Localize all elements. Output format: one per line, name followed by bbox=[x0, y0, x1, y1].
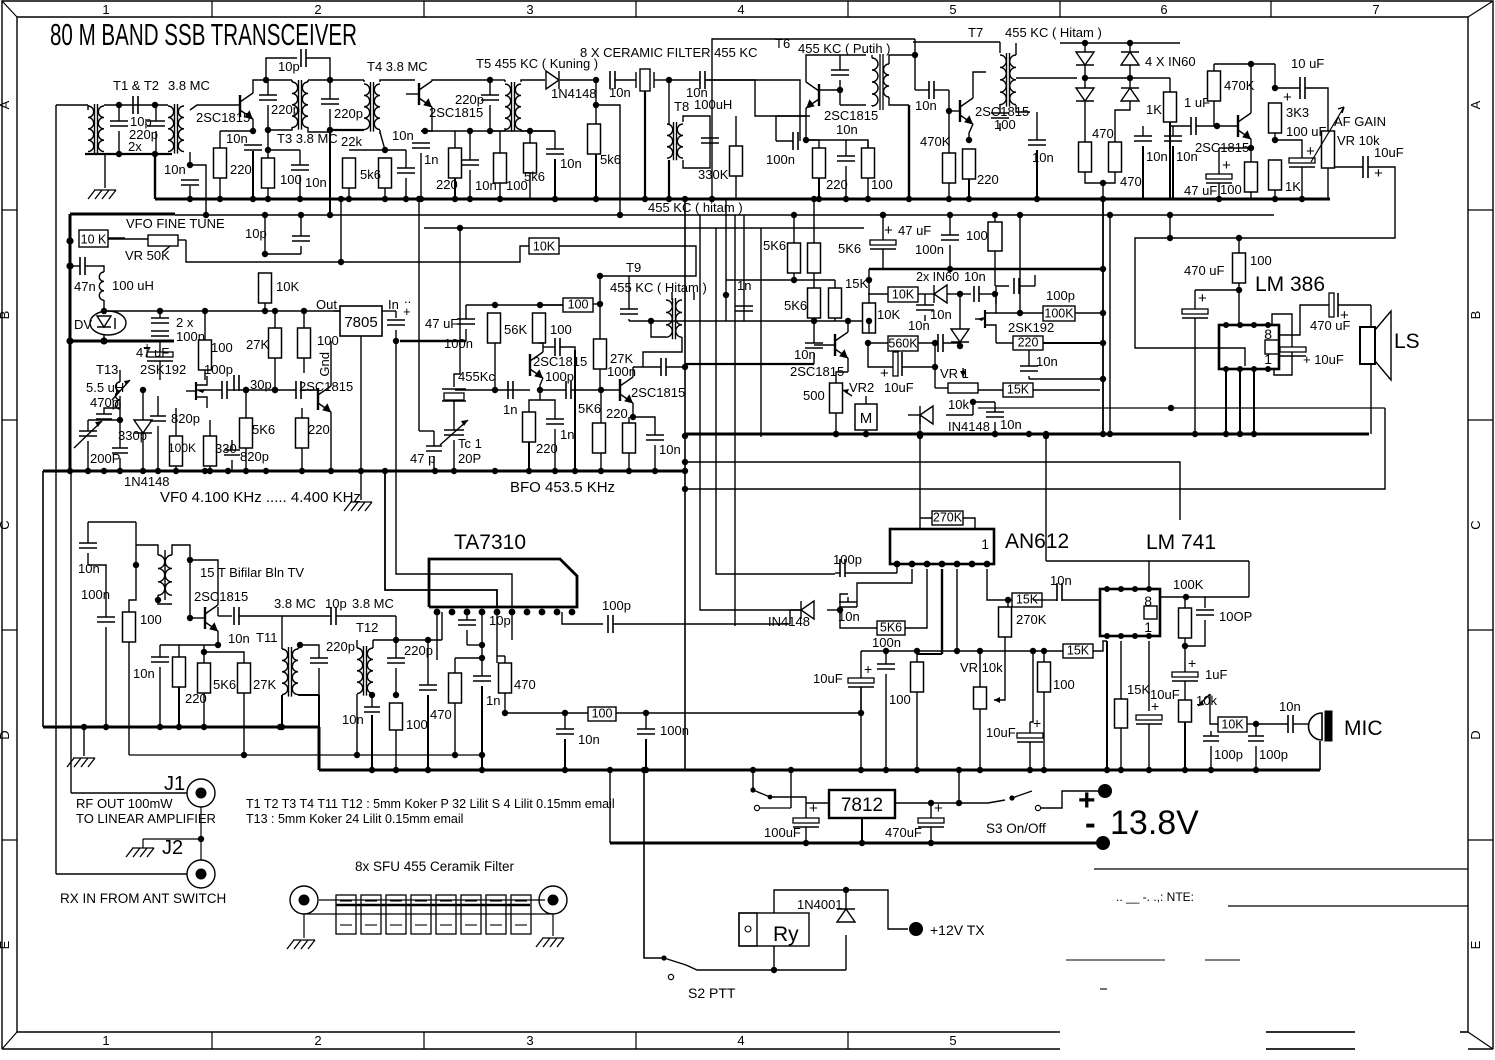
svg-text:C: C bbox=[1468, 520, 1483, 529]
fet 2SK192 bbox=[195, 382, 197, 400]
svg-text:AN612: AN612 bbox=[1005, 530, 1069, 553]
junction bus x645 bbox=[642, 196, 648, 202]
wire ring a mid bbox=[1084, 43, 1086, 52]
svg-text:10n: 10n bbox=[1000, 417, 1022, 432]
resistor 470K T7 bbox=[943, 153, 956, 183]
wire lm386 gnd pins bbox=[1225, 369, 1227, 434]
svg-text:2SC1815: 2SC1815 bbox=[824, 108, 878, 123]
wire 220 bfo wires bbox=[529, 390, 540, 412]
capacitor 47uF bfo bbox=[457, 319, 475, 324]
capacitor 10n T2 bottom bbox=[181, 180, 199, 185]
junction T9 x651 bbox=[648, 318, 654, 324]
svg-text:1: 1 bbox=[102, 1033, 109, 1048]
potentiometer 10k 741 bbox=[1179, 700, 1192, 722]
resistor 470 ta a bbox=[449, 673, 462, 703]
wire 15K top feed bbox=[868, 269, 870, 280]
wire vr10k an612 wires bbox=[979, 676, 981, 687]
frame corner diagonal bottom-right bbox=[1468, 1032, 1493, 1049]
capacitor 10p T12 bbox=[331, 607, 336, 625]
wire y238 continuation bbox=[1167, 235, 1173, 241]
wire Q6 emitter bbox=[330, 412, 332, 471]
transformer T7 bbox=[1000, 55, 1006, 105]
svg-text:100: 100 bbox=[966, 228, 988, 243]
wire 470uF ps wires bbox=[930, 803, 932, 818]
wire x596 drop bbox=[595, 80, 597, 105]
wire 1n bfo b wires bbox=[540, 400, 555, 419]
microphone MIC bbox=[1309, 713, 1323, 740]
frame corner diagonal bottom-left bbox=[2, 1032, 17, 1049]
svg-text:100uF: 100uF bbox=[764, 825, 801, 840]
diode 1N4001 bbox=[837, 909, 855, 922]
wire TX bus step x319 bbox=[318, 727, 321, 770]
wire 5k6 T5 bottom bbox=[529, 173, 531, 199]
wire 7805 in cap bottom bbox=[395, 330, 397, 341]
wire T2 secondary to Q1 base bbox=[190, 105, 240, 110]
junction 100 vfo top bbox=[202, 308, 208, 314]
junction VFO x70 y241 bbox=[66, 237, 73, 244]
potentiometer VR 10k an612 bbox=[974, 687, 987, 709]
wire T9 bottom link bbox=[629, 320, 651, 322]
svg-text:3.8 MC: 3.8 MC bbox=[274, 596, 316, 611]
junction bus VR2 bbox=[833, 431, 839, 437]
capacitor 10n series a bbox=[610, 71, 615, 89]
wire 741 gnd pin bbox=[1106, 641, 1108, 770]
wire 5K6 an612 wires bbox=[840, 610, 877, 628]
svg-text:2SC1815: 2SC1815 bbox=[194, 589, 248, 604]
capacitor T8 tune bbox=[701, 138, 719, 143]
polarized cap 47uF af bbox=[1206, 174, 1232, 179]
junction q10 txrail bbox=[201, 649, 207, 655]
wire 1N4001 wires bbox=[845, 890, 847, 909]
svg-text:10n: 10n bbox=[964, 269, 986, 284]
resistor box 100 ta bbox=[588, 707, 616, 721]
svg-text:T6: T6 bbox=[775, 36, 790, 51]
wire 100n mod wires bbox=[949, 215, 951, 235]
wire S2 feed bbox=[644, 780, 664, 958]
wire 7805 gnd bbox=[360, 336, 362, 471]
resistor 5K6 bfo bbox=[593, 423, 606, 453]
junction x596 y105 bbox=[593, 102, 599, 108]
wire q10 emitter bbox=[217, 631, 219, 645]
wire pot wiper out bbox=[1335, 166, 1363, 168]
wire T4 bottom rail bbox=[330, 129, 364, 131]
svg-text:5K6: 5K6 bbox=[880, 621, 902, 635]
connector J1 bbox=[187, 779, 215, 807]
resistor 330 vfo bbox=[204, 436, 217, 466]
svg-text:100K: 100K bbox=[1044, 307, 1074, 321]
wire gnd stem txd bbox=[83, 729, 85, 756]
wire 10nb to T6 bbox=[705, 80, 810, 116]
wire fet area bbox=[959, 346, 961, 360]
wire 27K q10 wires bbox=[204, 652, 244, 663]
wire 100uF ps wires bbox=[805, 803, 807, 818]
resistor box 15K mod2 bbox=[1003, 383, 1033, 397]
wire thick y364 bbox=[685, 363, 814, 365]
wire 5K6 bfo wires bbox=[598, 390, 600, 423]
wire 100 T12 bottom bbox=[395, 730, 397, 770]
resistor box 100 bfo bbox=[563, 298, 593, 312]
svg-text:7805: 7805 bbox=[344, 314, 377, 331]
transformer T5 bbox=[505, 84, 511, 130]
svg-text:10 K: 10 K bbox=[81, 233, 107, 247]
svg-text:M: M bbox=[860, 410, 873, 427]
wire mid horizontal y462 bbox=[685, 462, 1180, 520]
wire TA7310 vcc feed bbox=[396, 341, 512, 607]
svg-text:47n: 47n bbox=[74, 279, 96, 294]
svg-text:1K: 1K bbox=[1146, 102, 1162, 117]
svg-text:100: 100 bbox=[889, 692, 911, 707]
ic lm386 inner box bbox=[1265, 340, 1279, 354]
svg-text:T7: T7 bbox=[968, 25, 983, 40]
svg-text:T13: T13 bbox=[96, 362, 118, 377]
wire Ry bottom bbox=[773, 946, 775, 970]
capacitor 10uF lm386 bbox=[1280, 347, 1306, 352]
wire 330p wires bbox=[119, 420, 121, 448]
capacitor 100n mod bbox=[941, 235, 959, 240]
svg-text:10n: 10n bbox=[908, 318, 930, 333]
svg-text:5k6: 5k6 bbox=[360, 167, 381, 182]
svg-text:3.8 MC: 3.8 MC bbox=[352, 596, 394, 611]
junction bus x1302 bbox=[1299, 196, 1305, 202]
polarized cap 10uF mod bbox=[893, 352, 898, 376]
wire 27K wires bbox=[599, 276, 601, 339]
svg-text:B: B bbox=[0, 311, 12, 320]
varactor DV bbox=[90, 311, 126, 335]
capacitor 10n modc bbox=[974, 286, 979, 302]
wire 10p T12 wires bbox=[336, 615, 396, 617]
resistor 5k6 det bbox=[588, 124, 601, 154]
wire cap right drop bbox=[155, 105, 157, 121]
junction y280 x794 bbox=[791, 277, 797, 283]
junction bus x268 bbox=[265, 196, 271, 202]
wire T9 coupling wires bbox=[628, 276, 630, 309]
svg-text:1N4148: 1N4148 bbox=[551, 86, 597, 101]
svg-text:E: E bbox=[0, 940, 12, 949]
wire thick rail y269 bbox=[869, 268, 1103, 270]
connector SFU left bbox=[290, 886, 318, 914]
svg-text:7812: 7812 bbox=[841, 795, 883, 816]
capacitor 100p bfo bbox=[555, 338, 560, 356]
capacitor 10n af a bbox=[1134, 136, 1152, 141]
svg-text:100: 100 bbox=[1220, 182, 1242, 197]
wire 100 vfo right wires bbox=[303, 311, 305, 328]
resistor 220 Q3 bbox=[813, 148, 826, 178]
wire Q1 emitter rail bbox=[220, 130, 253, 132]
wire 100n bfo out wires bbox=[633, 366, 661, 368]
transistor Q4 2SC1815 bbox=[959, 100, 961, 122]
resistor 100K vfo bbox=[170, 436, 183, 466]
wire 5k6 tops bbox=[793, 215, 795, 243]
junction T6 out bbox=[912, 52, 918, 58]
wire T6 sec ground drop bbox=[908, 105, 910, 199]
pot wiper arrow bbox=[1311, 107, 1344, 162]
wire 100p ta out wire bbox=[613, 623, 790, 625]
transistor Q6 2SC1815 vfo bbox=[317, 388, 319, 410]
wire 5k6 T4 bottom bbox=[384, 188, 386, 199]
cap 1n on trunk x744 bbox=[735, 306, 753, 311]
capacitor 10n Q1 emitter bbox=[244, 145, 262, 150]
capacitor in 7805 bbox=[387, 320, 405, 325]
bottom band dividers bbox=[211, 1032, 213, 1049]
transformer T11 bbox=[282, 649, 288, 695]
wire 220 Q3 wires bbox=[806, 140, 819, 148]
junction T3 left top bbox=[263, 77, 269, 83]
svg-text:470 uF: 470 uF bbox=[1310, 318, 1351, 333]
wire 820p b wires bbox=[231, 440, 233, 450]
wire 1uF 741 wires bbox=[1184, 646, 1186, 672]
junction y651 x917 bbox=[914, 648, 920, 654]
svg-text:+: + bbox=[1283, 89, 1292, 106]
capacitor 10n af b bbox=[1164, 136, 1182, 141]
wire 7812 out bbox=[895, 802, 988, 804]
transformer T1 input bbox=[88, 106, 94, 152]
resistor box 560K bbox=[888, 336, 918, 351]
wire diode ring top bbox=[1060, 42, 1180, 44]
relay Ry box bbox=[739, 913, 809, 946]
svg-text:VF0 4.100 KHz ..... 4.400 KHz: VF0 4.100 KHz ..... 4.400 KHz bbox=[160, 489, 361, 506]
wire 220 mod wires bbox=[996, 342, 1013, 344]
svg-text:LM 386: LM 386 bbox=[1255, 273, 1325, 296]
svg-text:T4 3.8 MC: T4 3.8 MC bbox=[367, 59, 428, 74]
wire 10n af b wires bbox=[1172, 126, 1174, 136]
svg-text:10p: 10p bbox=[278, 59, 300, 74]
svg-text:20P: 20P bbox=[458, 451, 481, 466]
wire ta pin drop x437 bbox=[436, 612, 438, 660]
svg-text:1 uF: 1 uF bbox=[1184, 95, 1210, 110]
capacitor 10uF out bbox=[1363, 156, 1368, 178]
svg-text:820p: 820p bbox=[240, 449, 269, 464]
svg-text:BFO 453.5 KHz: BFO 453.5 KHz bbox=[510, 479, 615, 496]
svg-text:100K: 100K bbox=[168, 441, 196, 455]
wire 100K mod wires bbox=[996, 312, 1043, 314]
svg-text:E: E bbox=[1468, 940, 1483, 949]
wire T7 core top bbox=[999, 42, 1001, 53]
junction bus x253 bbox=[250, 196, 256, 202]
wire 10k 741 bottom bbox=[1184, 722, 1186, 770]
wire 200P wires bbox=[87, 420, 89, 431]
wire 7805 in bbox=[382, 310, 396, 312]
capacitor 10n coup bbox=[234, 607, 239, 625]
resistor 100 af bbox=[1245, 162, 1258, 192]
resistor 220 q10 bbox=[173, 657, 186, 687]
wire an612 pin5 drop bbox=[956, 569, 958, 651]
svg-text:13.8V: 13.8V bbox=[1110, 804, 1199, 842]
resistor 27K bfo bbox=[594, 339, 607, 369]
wire 220p T11 wires bbox=[300, 645, 319, 658]
junction Q4 base node bbox=[946, 108, 952, 114]
svg-text:T3 3.8 MC: T3 3.8 MC bbox=[277, 131, 338, 146]
svg-text:47 uF: 47 uF bbox=[898, 223, 931, 238]
wire T11 bottoms bbox=[281, 695, 283, 727]
resistor 100 vfo right bbox=[298, 328, 311, 358]
wire sfu right gnd bbox=[553, 914, 558, 936]
junction bus x406 bbox=[403, 196, 409, 202]
frame corner diagonal top-right bbox=[1468, 1, 1493, 17]
wire VFO left edge thick bbox=[69, 214, 72, 471]
junction T2 top bbox=[152, 102, 158, 108]
wire fet gate bbox=[185, 390, 187, 392]
polarized cap 100uF bbox=[1289, 158, 1315, 163]
svg-text:C: C bbox=[0, 520, 12, 529]
junction bus470 lm386 bbox=[1192, 431, 1198, 437]
junction base node bbox=[1214, 123, 1220, 129]
svg-text:2x IN60: 2x IN60 bbox=[916, 270, 959, 284]
capacitor 100n an612b bbox=[877, 664, 895, 669]
svg-text:100n: 100n bbox=[915, 242, 944, 257]
svg-text:S3 On/Off: S3 On/Off bbox=[986, 821, 1046, 836]
junction Q1 emitter bbox=[250, 128, 256, 134]
resistor 100 an612 bbox=[911, 662, 924, 692]
polarized cap 470uF ps bbox=[918, 818, 944, 823]
ic LM386 pins bbox=[1223, 322, 1229, 328]
wire 10n T5out wires bbox=[554, 131, 556, 149]
wire q7 collector bbox=[539, 343, 543, 352]
wire q8 emitter bbox=[632, 403, 634, 417]
wire 220p T12 wires bbox=[395, 640, 397, 658]
wire x330 drop to y215 bbox=[329, 130, 331, 215]
capacitor 30p bbox=[234, 375, 239, 391]
junction bottom rail a bbox=[116, 151, 122, 157]
svg-text:TO LINEAR AMPLIFIER: TO LINEAR AMPLIFIER bbox=[76, 811, 216, 826]
wire 470 bottoms bbox=[1085, 172, 1115, 183]
wire M wires bbox=[865, 396, 867, 404]
frame corner diagonal top-left bbox=[2, 1, 17, 17]
ic AN612 box bbox=[890, 529, 994, 564]
wire Ry top bbox=[774, 890, 846, 913]
svg-text:2SC1815: 2SC1815 bbox=[631, 385, 685, 400]
wire T6 vcc rail bbox=[712, 39, 915, 199]
svg-text:AF GAIN: AF GAIN bbox=[1334, 114, 1386, 129]
resistor 220 bfo2 bbox=[623, 423, 636, 453]
wire 470 ta a wires bbox=[454, 658, 456, 673]
wire in4148 an612 wires bbox=[801, 609, 810, 611]
svg-text:-: - bbox=[1085, 805, 1096, 841]
resistor 470 ring a bbox=[1079, 142, 1092, 172]
capacitor 220p T3 bbox=[259, 95, 277, 100]
regulator 7812 box bbox=[829, 790, 895, 818]
svg-text:+: + bbox=[1033, 715, 1041, 731]
resistor 5K6 mod c bbox=[808, 288, 821, 318]
svg-text:T1 T2 T3 T4 T11 T12 : 5m: T1 T2 T3 T4 T11 T12 : 5mm Koker P 32 Lil… bbox=[246, 797, 615, 811]
svg-text:B: B bbox=[1468, 311, 1483, 320]
wire T4 coil tops bbox=[363, 80, 365, 82]
junction x330 bottom bbox=[327, 127, 333, 133]
wire T6 coil stubs bbox=[871, 55, 873, 58]
wire Q4 base link bbox=[949, 110, 960, 112]
svg-text:Tc 1: Tc 1 bbox=[458, 436, 482, 451]
wire 10n to bus bbox=[252, 151, 254, 199]
resistor box 10K 741 bbox=[1218, 717, 1247, 732]
svg-text:100p: 100p bbox=[833, 552, 862, 567]
wire 741 out pin8 bbox=[1160, 596, 1186, 598]
polarized cap 47uF mod bbox=[870, 240, 896, 245]
svg-text:LM 741: LM 741 bbox=[1146, 531, 1216, 554]
svg-text:3.8 MC: 3.8 MC bbox=[168, 78, 210, 93]
wire 741 pin2 drop bbox=[1120, 641, 1122, 699]
junction y462 x685 bbox=[682, 459, 688, 465]
wire TX main bus y770 bbox=[319, 769, 1320, 772]
svg-text:15K: 15K bbox=[1127, 682, 1150, 697]
svg-text:1N4001: 1N4001 bbox=[797, 897, 843, 912]
wire 100 vfo wires bbox=[204, 311, 206, 340]
transformer T6 bbox=[872, 58, 878, 106]
svg-text:270K: 270K bbox=[933, 511, 963, 525]
svg-text:470: 470 bbox=[514, 677, 536, 692]
svg-text:5K6: 5K6 bbox=[784, 298, 807, 313]
svg-text:100n: 100n bbox=[607, 364, 636, 379]
junction Q4 em bbox=[966, 137, 972, 143]
wire 15K mod2 to cap bbox=[1033, 599, 1042, 601]
junction bus x868 bbox=[865, 196, 871, 202]
capacitor 100p ta out bbox=[608, 615, 613, 633]
wire 741 fb down bbox=[1248, 561, 1250, 597]
junction bus x846 bbox=[843, 196, 849, 202]
svg-text:Gnd: Gnd bbox=[317, 352, 332, 377]
junction T5 top left bbox=[487, 77, 493, 83]
svg-text:TA7310: TA7310 bbox=[454, 531, 526, 554]
wire bus y215 bbox=[175, 214, 1274, 216]
junction af 3k3 node bbox=[1272, 85, 1278, 91]
svg-text:10n: 10n bbox=[164, 162, 186, 177]
svg-text:220: 220 bbox=[606, 406, 628, 421]
wire T7 top rail bbox=[913, 41, 1000, 43]
ground J2 bbox=[126, 848, 154, 857]
junction trunk x726 y295 bbox=[723, 292, 729, 298]
pot arrow 741 bbox=[1198, 694, 1210, 706]
svg-text:10n: 10n bbox=[1032, 150, 1054, 165]
transformer T15T bbox=[158, 555, 165, 595]
wire Q2 base bbox=[406, 80, 419, 94]
wire 10K mod left bbox=[868, 294, 888, 296]
svg-text:10n: 10n bbox=[1050, 573, 1072, 588]
svg-text:4: 4 bbox=[737, 1033, 744, 1048]
wire ring mid link bbox=[1085, 77, 1130, 79]
wire speaker feed bbox=[1338, 304, 1371, 306]
wire T12 pin link bbox=[396, 639, 442, 641]
svg-text:15 T Bifilar Bln TV: 15 T Bifilar Bln TV bbox=[200, 565, 304, 580]
wire T6 out drop bbox=[914, 39, 916, 55]
wire T7 left bottom bbox=[999, 104, 1001, 105]
wire 10K box mid wires bbox=[559, 246, 696, 276]
svg-text:D: D bbox=[0, 730, 12, 739]
wire 270K an612b wires bbox=[1005, 606, 1008, 608]
wire 10n modb wires bbox=[924, 294, 926, 305]
svg-text:10n: 10n bbox=[392, 128, 414, 143]
wire S3 to plus bbox=[1040, 791, 1098, 808]
wire 100p bfo wires bbox=[543, 346, 555, 348]
wire VFO enclosure top thick bbox=[70, 213, 175, 216]
wire T2 sec bottom bbox=[189, 152, 191, 165]
svg-text:10K: 10K bbox=[877, 307, 900, 322]
wire T12 left bottom bbox=[356, 694, 358, 755]
resistor 5K6 mod a bbox=[788, 243, 801, 273]
wire q9 collector bbox=[847, 321, 849, 332]
svg-text:T13: T13 : 5mm Koker 24 Lilit 0.15mm email bbox=[246, 812, 463, 826]
capacitor 220p T5 bbox=[481, 95, 499, 100]
wire 1n Q2 bottom bbox=[420, 153, 422, 199]
wire 741 fb line bbox=[1046, 560, 1249, 562]
svg-text:10n: 10n bbox=[342, 712, 364, 727]
resistor 5k6 T4 bbox=[379, 158, 392, 188]
capacitor 220p T11 bbox=[310, 658, 328, 663]
transformer T4 bbox=[364, 84, 370, 130]
capacitor 10p y238 bbox=[292, 236, 310, 241]
side band dividers bbox=[2, 209, 17, 211]
svg-text:.. __ -. .,: NTE:: .. __ -. .,: NTE: bbox=[1116, 890, 1194, 904]
junction DV bottom bbox=[100, 337, 107, 344]
svg-text:10uF: 10uF bbox=[1374, 145, 1404, 160]
wire pin drops ta bbox=[481, 612, 483, 658]
